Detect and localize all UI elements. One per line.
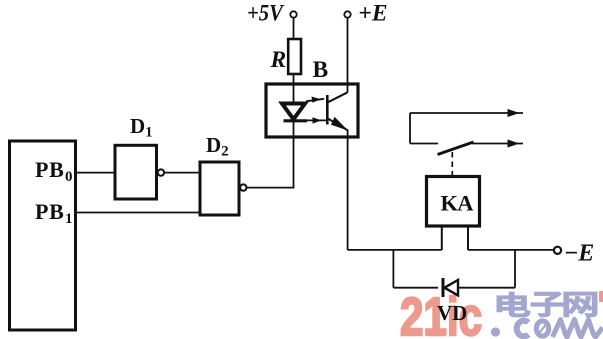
svg-text:KA: KA: [441, 191, 475, 216]
LED vertical wire inside B: [293, 84, 295, 137]
gate D2 box: [200, 162, 239, 215]
svg-text:+E: +E: [359, 1, 388, 27]
wire PB0 to D1: [76, 172, 116, 174]
wire +5V to R: [293, 18, 295, 39]
rail left segment: [348, 249, 442, 251]
terminal +E: [344, 11, 350, 17]
light arrow 2: [305, 117, 326, 123]
svg-text:+5V: +5V: [247, 1, 285, 27]
wire D1 to D2: [164, 172, 200, 174]
watermark 21ic.com 电子网: [400, 287, 603, 339]
port block PB: [10, 141, 76, 330]
svg-text:−E: −E: [565, 241, 595, 267]
diode VD triangle: [445, 280, 459, 295]
diode loop bottom-right wire: [458, 287, 515, 289]
relay contact lower-right with arrow: [472, 140, 523, 148]
LED cathode bar: [284, 119, 308, 122]
phototransistor base bar: [326, 95, 329, 125]
wire emitter down: [347, 130, 349, 250]
wire PB1 to D2: [76, 212, 201, 214]
D1 output bubble: [158, 169, 164, 175]
D2 output bubble: [240, 184, 246, 190]
dashed link to KA: [451, 152, 453, 176]
phototransistor collector: [328, 92, 348, 102]
svg-text:VD: VD: [437, 301, 467, 325]
optocoupler B box: [266, 84, 358, 137]
inverter D1 box: [115, 145, 157, 199]
relay contact left vertical: [409, 113, 411, 144]
relay contact blade: [438, 142, 474, 155]
diode loop right vertical: [514, 250, 516, 288]
wire D2 output: [247, 137, 294, 188]
light arrow 1: [306, 97, 324, 103]
svg-text:B: B: [313, 57, 329, 83]
svg-text:R: R: [270, 47, 287, 73]
rail right segment: [468, 249, 554, 251]
phototransistor emitter with arrow: [328, 117, 348, 131]
diode VD cathode bar: [442, 278, 445, 297]
wire R to optocoupler: [293, 74, 295, 85]
resistor R: [288, 39, 301, 74]
relay contact lower-left segment: [410, 143, 438, 145]
KA left pin: [441, 226, 443, 250]
KA right pin: [467, 226, 469, 250]
diode loop bottom-left wire: [393, 287, 438, 289]
diode loop left vertical: [392, 250, 394, 288]
relay coil KA box: [427, 177, 480, 227]
LED triangle: [282, 104, 305, 120]
terminal +5V: [290, 11, 296, 17]
relay contact upper line with arrow: [410, 109, 523, 117]
wire +E down to collector: [347, 18, 349, 93]
terminal -E: [554, 247, 561, 254]
